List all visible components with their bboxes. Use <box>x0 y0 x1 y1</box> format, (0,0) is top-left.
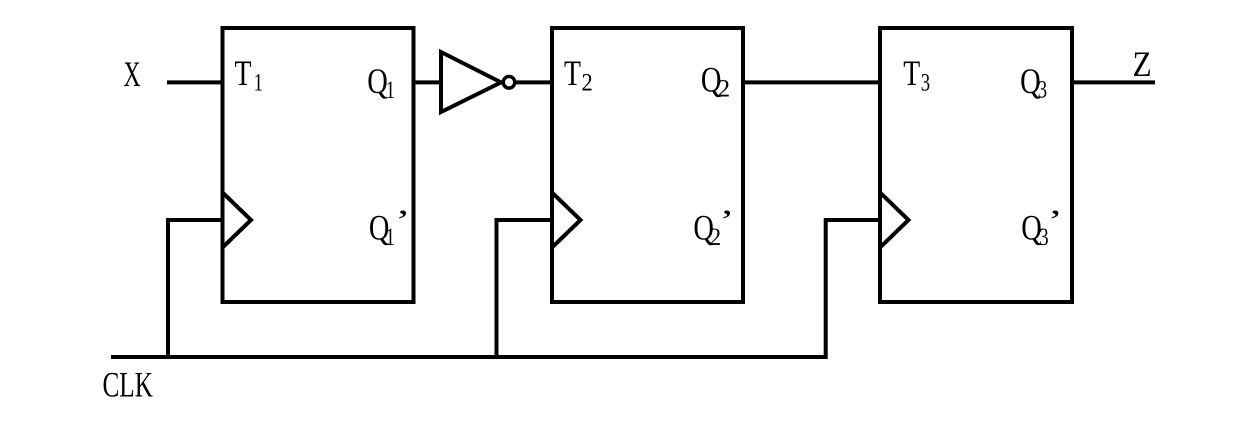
svg-text:2: 2 <box>582 70 593 97</box>
svg-text:3: 3 <box>1038 75 1047 103</box>
wire CLK riser and stub to U1 clock pin <box>168 220 223 357</box>
wire CLK bus with riser and stub to U3 clock pin <box>111 220 880 357</box>
wire U3 Q3 output to Z <box>1072 80 1155 84</box>
svg-text:T: T <box>903 53 920 93</box>
label Q2' (U2 Q-bar output pin) <box>693 203 734 251</box>
svg-text:Z: Z <box>1133 45 1152 84</box>
svg-text:1: 1 <box>386 75 395 103</box>
svg-text:3: 3 <box>921 68 930 96</box>
svg-text:T: T <box>235 53 252 93</box>
svg-text:1: 1 <box>254 68 263 96</box>
label CLK (clock net) <box>103 364 154 405</box>
svg-text:1: 1 <box>386 222 395 250</box>
svg-text:2: 2 <box>718 76 731 103</box>
flip-flop U1 clock edge triangle <box>223 193 252 248</box>
label Q1' (U1 Q-bar output pin) <box>369 203 410 250</box>
flip-flop U2 (T flip-flop T2) box <box>552 28 743 302</box>
svg-text:X: X <box>124 54 141 94</box>
svg-text:’: ’ <box>1048 203 1063 237</box>
svg-text:T: T <box>564 53 581 93</box>
svg-text:CLK: CLK <box>103 364 154 405</box>
label T1 (U1 T input pin) <box>235 53 263 97</box>
wire U1 Q1 output to inverter G1 input <box>414 80 442 84</box>
wire CLK riser and stub to U2 clock pin <box>497 220 553 357</box>
label Q3 (U3 Q output pin) <box>1020 62 1047 103</box>
inverter G1 bubble <box>503 77 515 89</box>
label T2 (U2 T input pin) <box>564 53 593 97</box>
flip-flop U3 clock edge triangle <box>880 193 909 248</box>
flip-flop U1 (T flip-flop T1) box <box>223 28 414 302</box>
label Z (output net Z) <box>1133 45 1152 84</box>
label Q3' (U3 Q-bar output pin) <box>1021 203 1062 250</box>
wire inverter G1 output to U2 T pin <box>517 80 553 84</box>
wire input X to U1 T pin <box>167 80 223 84</box>
svg-text:Q: Q <box>367 62 388 102</box>
svg-text:’: ’ <box>395 203 410 237</box>
inverter G1 triangle <box>441 52 501 112</box>
label X (input net X) <box>124 54 141 94</box>
label Q2 (U2 Q output pin) <box>701 61 730 103</box>
flip-flop U3 (T flip-flop T3) box <box>880 28 1072 302</box>
flip-flop U2 clock edge triangle <box>552 193 581 248</box>
wire U2 Q2 output to U3 T pin <box>743 80 880 84</box>
label T3 (U3 T input pin) <box>903 53 930 97</box>
label Q1 (U1 Q output pin) <box>367 62 395 104</box>
svg-text:’: ’ <box>719 203 734 237</box>
